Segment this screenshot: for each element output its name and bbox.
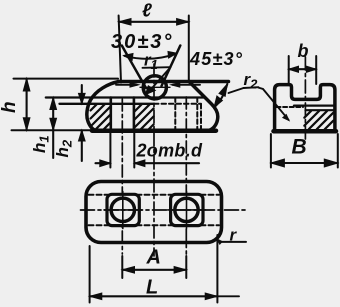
r1 groove circle [143,76,166,99]
left hole crosshair [104,209,142,211]
front view: top flat + 45deg reference line [118,80,229,84]
front view: bottom edge [92,128,216,133]
b dimension [288,56,290,84]
h dimension [14,78,119,80]
bottom view horizontal centerline [81,209,246,211]
svg-text:h: h [0,101,20,113]
front view: left hump profile [87,82,119,131]
L dimension [89,246,91,303]
front view: right 45 chamfer + rounded end [189,82,218,131]
45deg dim arc with arrows [214,84,227,108]
groove side arrows left [116,84,137,86]
h2 dimension arrows (outside) [81,85,83,104]
front view: right hole hidden dashed [174,98,176,131]
V groove right line [162,46,181,87]
A dimension [121,256,123,278]
front view: hatch mid region [135,104,154,130]
r1 circle horizontal centerline [140,86,170,88]
side view vertical centerline [304,57,306,142]
side view counterbore ceiling solid [294,104,334,106]
r leader [217,239,246,242]
r1 leader [143,66,171,69]
svg-text:A: A [146,247,161,269]
center dash-dot lines [121,99,123,254]
bottom view hidden slot edges [89,194,220,196]
groove side arrows right [173,84,201,86]
front view: hatch left region [91,104,111,130]
side view hatch top line [305,109,333,111]
side view hidden dashed line [277,106,304,108]
l dimension line [119,21,189,23]
bottom view left hole circle [111,198,134,221]
svg-text:45±3°: 45±3° [189,49,243,69]
V groove left line [122,46,146,89]
svg-text:L: L [146,276,158,298]
front view: h2 level dashed right [154,103,201,105]
svg-text:B: B [292,136,307,159]
bottom view right hole circle [175,198,198,221]
l dimension extension lines [119,16,121,83]
side view outline [275,85,335,132]
svg-text:2оmb.d: 2оmb.d [136,141,204,161]
side view bottom edge [274,129,337,134]
front view: h1 level line [46,96,206,98]
bottom view right counterbore square [171,194,203,225]
side view hatch [304,111,333,129]
right hole crosshair [168,209,206,211]
B dimension [270,134,272,168]
svg-text:b: b [298,41,309,61]
30deg dimension arc [125,54,177,59]
svg-text:30±3°: 30±3° [111,31,173,53]
bottom view left counterbore square [107,194,139,225]
h1 dimension line with inside arrows [52,98,54,159]
svg-text:ℓ: ℓ [142,1,152,22]
front view: h2 level line solid [60,103,155,105]
2otv.d dimension ext lines [109,131,111,168]
front view: left hole solid edges [110,98,113,131]
r2 underline and leaders [244,86,259,89]
bottom view outer rounded rect [86,182,222,243]
2otv.d dim line with outside arrows [96,162,111,164]
